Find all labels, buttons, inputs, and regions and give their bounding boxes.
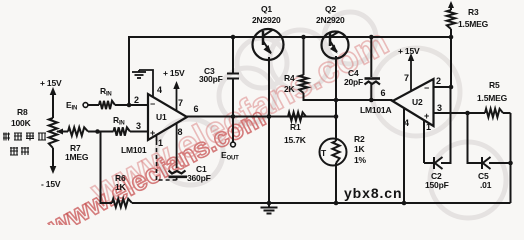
svg-text:Q2: Q2 bbox=[325, 4, 336, 14]
svg-text:R8: R8 bbox=[17, 107, 28, 117]
supply arrow +15V (R8) bbox=[50, 87, 57, 95]
label hanzi bias voltage bbox=[3, 133, 46, 156]
ground symbol U1 pin4 bbox=[132, 70, 146, 78]
svg-text:7: 7 bbox=[404, 73, 409, 83]
svg-text:RIN: RIN bbox=[113, 115, 125, 127]
capacitor C3 bbox=[227, 74, 239, 79]
svg-text:R5: R5 bbox=[489, 80, 500, 90]
svg-text:3: 3 bbox=[437, 103, 442, 113]
junction C4 top rail node bbox=[369, 35, 374, 40]
resistor R6 bbox=[112, 199, 132, 207]
svg-text:6: 6 bbox=[381, 88, 386, 98]
svg-text:1: 1 bbox=[426, 122, 431, 132]
svg-text:15.7K: 15.7K bbox=[284, 135, 307, 145]
svg-text:2N2920: 2N2920 bbox=[316, 15, 345, 25]
wire Q1 emitter to ground bbox=[268, 57, 270, 203]
junction C3 top rail node bbox=[231, 35, 236, 40]
wire Q2 emitter drop bbox=[335, 56, 337, 141]
svg-text:8: 8 bbox=[178, 127, 183, 137]
U1 pin7 supply bbox=[176, 88, 178, 111]
junction R7/R6 node bbox=[95, 129, 100, 134]
thermistor circle T bbox=[320, 139, 347, 166]
svg-text:4: 4 bbox=[404, 118, 409, 128]
svg-text:R4: R4 bbox=[284, 73, 295, 83]
junction thermistor ground node bbox=[334, 201, 339, 206]
svg-text:2K: 2K bbox=[284, 84, 296, 94]
wire top feedback rail bbox=[129, 37, 451, 105]
resistor R8 potentiometer bbox=[49, 118, 57, 148]
resistor R_IN (pin2) bbox=[99, 101, 115, 109]
wire U2 pin1 drop bbox=[423, 121, 425, 164]
svg-text:−: − bbox=[424, 83, 429, 93]
svg-text:Q1: Q1 bbox=[261, 4, 272, 14]
wire R6 branch vertical bbox=[101, 132, 113, 204]
svg-text:6: 6 bbox=[194, 104, 199, 114]
resistor R2 thermistor zigzag bbox=[332, 141, 339, 163]
junction R4 top rail node bbox=[301, 35, 306, 40]
svg-text:R2: R2 bbox=[354, 134, 365, 144]
U2 pin7 supply bbox=[410, 58, 412, 91]
svg-text:4: 4 bbox=[157, 85, 162, 95]
watermark gray circles bbox=[157, 12, 506, 218]
wire bottom ground rail bbox=[132, 202, 511, 204]
svg-text:2: 2 bbox=[436, 76, 441, 86]
junction Q2 emitter / U2 output node bbox=[334, 98, 339, 103]
capacitor C5 bbox=[482, 157, 491, 169]
junction U2 pin3 node bbox=[465, 111, 470, 116]
svg-text:R1: R1 bbox=[290, 122, 301, 132]
svg-text:.01: .01 bbox=[480, 180, 492, 190]
svg-text:+ 15V: + 15V bbox=[163, 68, 185, 78]
svg-text:300pF: 300pF bbox=[199, 74, 223, 84]
svg-text:+ 15V: + 15V bbox=[398, 46, 420, 56]
svg-text:2N2920: 2N2920 bbox=[252, 15, 281, 25]
svg-text:1.5MEG: 1.5MEG bbox=[477, 93, 508, 103]
svg-text:2: 2 bbox=[134, 95, 139, 105]
wire C3 branch vertical bbox=[232, 37, 234, 73]
transistor Q2 bbox=[322, 32, 349, 59]
svg-text:ybx8.cn: ybx8.cn bbox=[344, 185, 402, 201]
wire C2 left stub bbox=[424, 162, 433, 164]
svg-text:U1: U1 bbox=[156, 112, 167, 122]
svg-text:T: T bbox=[321, 148, 327, 158]
svg-text:20pF: 20pF bbox=[344, 77, 363, 87]
junction Q1 emitter node bbox=[267, 114, 272, 119]
wire pin3 line bbox=[57, 131, 68, 133]
wire Eout drop bbox=[232, 117, 234, 143]
supply arrow R3 top bbox=[448, 1, 454, 8]
terminal Eout bbox=[231, 142, 236, 147]
junction U2 pin4 ground node bbox=[402, 201, 407, 206]
resistor R7 bbox=[68, 127, 88, 135]
svg-text:U2: U2 bbox=[412, 97, 423, 107]
U1 pin8 stub bbox=[176, 124, 178, 168]
resistor R3 bbox=[447, 10, 455, 29]
junction C5 right node bbox=[508, 161, 513, 166]
wire C5 left vertical bbox=[468, 113, 482, 163]
junction U2 pin2 node bbox=[449, 85, 454, 90]
junction C4 bottom node bbox=[369, 98, 374, 103]
svg-text:1%: 1% bbox=[354, 155, 367, 165]
U1 pin1 stub bbox=[156, 134, 158, 141]
svg-text:1.5MEG: 1.5MEG bbox=[458, 19, 489, 29]
ground symbol main bbox=[261, 203, 278, 214]
svg-text:360pF: 360pF bbox=[187, 173, 211, 183]
op-amp U2 (points left) bbox=[393, 79, 434, 126]
svg-text:+: + bbox=[150, 128, 155, 138]
junction Eout node bbox=[231, 114, 236, 119]
svg-text:LM101A: LM101A bbox=[360, 105, 391, 115]
svg-text:1K: 1K bbox=[115, 182, 127, 192]
wire C5 right stub bbox=[489, 162, 511, 164]
svg-text:- 15V: - 15V bbox=[41, 179, 61, 189]
junction ground rail node bbox=[267, 201, 272, 206]
svg-text:EIN: EIN bbox=[66, 100, 77, 112]
svg-text:−: − bbox=[150, 99, 155, 109]
wire R4 branch bbox=[303, 37, 305, 75]
resistor R4 bbox=[299, 75, 307, 93]
resistor R1 bbox=[288, 112, 306, 120]
op-amp U1 bbox=[148, 94, 187, 140]
terminal Ein bbox=[83, 103, 88, 108]
wire C2 right stub up to pin2 node bbox=[441, 87, 451, 163]
svg-text:+ 15V: + 15V bbox=[40, 78, 62, 88]
capacitor C1 bbox=[169, 171, 188, 177]
wire right vertical R5/C5 bbox=[510, 113, 512, 203]
wire C4 branch bbox=[370, 37, 372, 77]
svg-text:1MEG: 1MEG bbox=[65, 152, 89, 162]
resistor R5 bbox=[485, 109, 503, 117]
resistor R_IN (pin3) bbox=[114, 127, 131, 135]
wire U1 output line bbox=[187, 116, 338, 118]
svg-text:7: 7 bbox=[178, 98, 183, 108]
supply arrow -15V bbox=[50, 166, 57, 174]
wire pin2 input line bbox=[88, 104, 99, 106]
transistor Q1 bbox=[253, 29, 284, 60]
svg-text:3: 3 bbox=[136, 121, 141, 131]
U1 pin4 ground wire bbox=[139, 70, 153, 97]
svg-text:R3: R3 bbox=[468, 7, 479, 17]
wire R8 branch top bbox=[52, 92, 54, 118]
wire R8 branch bottom bbox=[52, 148, 54, 170]
wire U2 pin2 bbox=[434, 86, 452, 88]
wire U2 pin3 line to R5 bbox=[434, 112, 486, 114]
svg-text:RIN: RIN bbox=[100, 86, 112, 98]
R8 wiper arrow bbox=[60, 131, 68, 133]
svg-text:100K: 100K bbox=[11, 118, 32, 128]
svg-text:1K: 1K bbox=[354, 144, 366, 154]
wire R3 branch bbox=[450, 3, 452, 10]
wire U2 pin4 drop bbox=[403, 108, 405, 203]
capacitor C2 bbox=[434, 157, 443, 169]
junction U1 pin2 feedback node bbox=[127, 103, 132, 108]
svg-text:EOUT: EOUT bbox=[221, 150, 239, 162]
capacitor C4 bbox=[365, 79, 381, 85]
svg-text:1: 1 bbox=[158, 138, 163, 148]
svg-text:LM101: LM101 bbox=[121, 145, 147, 155]
C1 dashed link to pin1 bbox=[157, 141, 177, 180]
svg-text:150pF: 150pF bbox=[425, 180, 449, 190]
junction R1 right node bbox=[334, 114, 339, 119]
junction R3 rail node bbox=[449, 35, 454, 40]
svg-text:+: + bbox=[424, 111, 429, 121]
